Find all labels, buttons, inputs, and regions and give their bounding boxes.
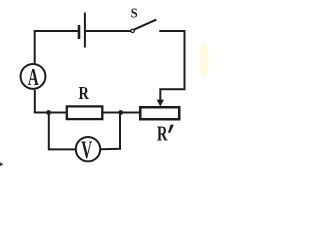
- svg-text:V: V: [81, 137, 92, 164]
- svg-text:R: R: [79, 83, 90, 104]
- svg-text:A: A: [28, 65, 39, 91]
- svg-text:S: S: [131, 5, 138, 21]
- svg-text:R: R: [157, 122, 168, 145]
